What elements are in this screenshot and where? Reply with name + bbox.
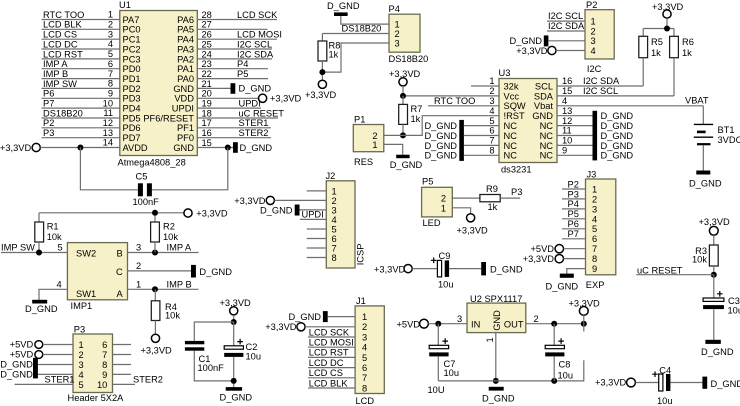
wire +3,3VD down [233, 315, 235, 322]
svg-text:UPDI: UPDI [172, 104, 194, 114]
svg-text:UPDI: UPDI [302, 210, 324, 220]
wire U1 pin 26 [197, 38, 277, 40]
svg-text:C4: C4 [659, 365, 671, 375]
svg-text:9: 9 [108, 88, 113, 98]
svg-text:+3,3VD: +3,3VD [516, 46, 548, 56]
capacitor C4 plates [652, 371, 670, 391]
ground D_GND (IMP1 SW1) [32, 300, 47, 304]
junction C8 bottom [551, 378, 557, 384]
svg-text:AVDD: AVDD [123, 143, 148, 153]
resistor R2 [151, 222, 160, 242]
ground bar U3 pins 13-9 [593, 111, 598, 161]
svg-text:3: 3 [489, 96, 494, 106]
connector P5 body [422, 187, 453, 217]
wire U1 pin 21 [197, 87, 230, 89]
svg-text:P5: P5 [237, 69, 248, 79]
svg-text:BT1: BT1 [718, 125, 735, 135]
wire J1 pin2 [305, 326, 355, 328]
svg-text:2: 2 [591, 26, 596, 36]
wire U1 pin 12 net P2 [42, 127, 120, 129]
wire U3 pin 6 to gnd [464, 135, 499, 137]
svg-text:2: 2 [79, 350, 84, 360]
svg-text:2: 2 [332, 196, 337, 206]
wire J1 net LCD DC [308, 367, 355, 369]
svg-text:7: 7 [592, 244, 597, 254]
svg-text:10: 10 [97, 380, 107, 390]
wire P1 pin2 [384, 134, 403, 136]
svg-text:16: 16 [562, 76, 572, 86]
svg-text:R5: R5 [651, 37, 663, 47]
ground D_GND (C1/C2) [226, 387, 242, 391]
svg-text:15: 15 [562, 86, 572, 96]
svg-text:10u: 10u [444, 368, 460, 378]
svg-text:1: 1 [108, 10, 113, 20]
svg-text:DS18B20: DS18B20 [43, 108, 83, 118]
wire +3,3VD to C4 [635, 382, 658, 384]
svg-text:+3,3VD: +3,3VD [0, 143, 31, 153]
svg-text:8: 8 [362, 383, 367, 393]
svg-text:SQW: SQW [504, 101, 526, 111]
svg-text:4: 4 [489, 106, 494, 116]
wire +3,3VD to R5/R6 [643, 18, 674, 36]
svg-text:+3,3VD: +3,3VD [265, 322, 297, 332]
wire I2C SDA (U3.16) [557, 85, 643, 87]
wire R3 top [713, 235, 715, 245]
svg-text:P6: P6 [43, 89, 54, 99]
wire P3 pin2 [43, 354, 73, 356]
wire C5 to U1 pin15 GND [152, 148, 228, 190]
svg-text:D_GND: D_GND [0, 360, 33, 370]
wire to C3 [713, 275, 715, 298]
wire to C1 top [194, 322, 233, 341]
svg-text:9: 9 [592, 264, 597, 274]
svg-text:6: 6 [362, 363, 367, 373]
wire U1 pin 10 net P7 [42, 107, 120, 109]
junction R7/P1/!RST [400, 132, 406, 138]
svg-text:1: 1 [485, 337, 495, 342]
svg-text:Header 5X2A: Header 5X2A [68, 393, 125, 403]
svg-text:IMP A: IMP A [43, 59, 68, 69]
ground D_GND (P2 pin3) [544, 35, 549, 46]
svg-text:PD5: PD5 [123, 113, 141, 123]
svg-text:R2: R2 [163, 222, 175, 232]
wire J2 pin 6 stub [307, 238, 327, 240]
svg-text:LCD MOSI: LCD MOSI [309, 338, 354, 348]
svg-text:IMP SW: IMP SW [1, 243, 35, 253]
svg-text:D_GND: D_GND [220, 393, 253, 403]
wire +3,3VD out stub [583, 315, 585, 331]
svg-text:+5VD: +5VD [397, 319, 421, 329]
svg-text:8: 8 [108, 79, 113, 89]
svg-text:+3,3VD: +3,3VD [196, 209, 228, 219]
wire J3 pin9 gnd [567, 269, 586, 274]
terminal +3,3VD (J3 pin8) [555, 254, 563, 262]
wire P3 pin1 [43, 344, 73, 346]
svg-text:D_GND: D_GND [424, 131, 457, 141]
svg-text:I2C SDA: I2C SDA [548, 21, 585, 31]
connector P4 body [389, 14, 420, 52]
terminal +3,3VD (R7 top) [399, 78, 407, 86]
resistor R1 [35, 222, 44, 242]
svg-text:PC3: PC3 [123, 54, 141, 64]
svg-text:LCD MOSI: LCD MOSI [237, 30, 282, 40]
wire J1 net LCD BLK [308, 387, 355, 389]
svg-text:R6: R6 [682, 37, 694, 47]
wire J3 pin7 [564, 248, 586, 250]
junction uC RESET/R3/C3 [711, 272, 717, 278]
capacitor C7 plates [429, 338, 448, 356]
capacitor C5 plates [138, 183, 143, 196]
capacitor C8 plates [545, 338, 564, 356]
resistor R8 [318, 41, 327, 61]
ground D_GND (IMP1 C) [191, 265, 196, 278]
svg-text:IMP B: IMP B [43, 69, 68, 79]
svg-text:NC: NC [504, 141, 518, 151]
wire U1 pin 9 net P6 [42, 97, 120, 99]
svg-text:23: 23 [202, 59, 212, 69]
svg-text:D_GND: D_GND [711, 379, 740, 389]
wire P5 pin1 [452, 208, 470, 214]
wire U2 OUT [526, 323, 584, 325]
wire C3 bottom [713, 309, 715, 340]
svg-text:C9: C9 [439, 251, 451, 261]
svg-text:VDD: VDD [174, 94, 194, 104]
wire U3 pin 7 to gnd [464, 144, 499, 146]
svg-text:NC: NC [540, 151, 554, 161]
svg-text:PC1: PC1 [123, 35, 141, 45]
svg-text:PA6: PA6 [177, 15, 194, 25]
svg-text:3: 3 [395, 38, 400, 48]
svg-text:J3: J3 [587, 169, 597, 179]
terminal +3,3VD (R4) [151, 334, 159, 342]
svg-text:LCD DC: LCD DC [43, 39, 78, 49]
wire U1 pin 16 [197, 137, 271, 139]
svg-text:1k: 1k [651, 48, 661, 58]
svg-text:+3,3VD: +3,3VD [523, 254, 555, 264]
wire P3 pin 9 stub [113, 373, 132, 375]
svg-text:D_GND: D_GND [490, 264, 523, 274]
svg-text:U2 SPX1117: U2 SPX1117 [470, 294, 522, 304]
svg-text:+5VD: +5VD [530, 244, 554, 254]
wire U1 pin 8 net IMP SW [42, 87, 120, 89]
svg-text:1k: 1k [411, 114, 421, 124]
svg-text:PD2: PD2 [123, 84, 141, 94]
svg-text:PA5: PA5 [177, 25, 194, 35]
svg-text:3: 3 [332, 205, 337, 215]
svg-text:5: 5 [108, 49, 113, 59]
wire U1 pin 22 [197, 78, 268, 80]
resistor R4 [151, 301, 160, 321]
svg-text:D_GND: D_GND [482, 393, 515, 403]
wire J2 pin 5 stub [307, 228, 327, 230]
svg-text:+3,3VD: +3,3VD [305, 90, 337, 100]
svg-text:1: 1 [591, 17, 596, 27]
ground D_GND (U1 pin 15) [233, 142, 238, 153]
svg-text:100nF: 100nF [133, 197, 160, 207]
wire D_GND to P4 pin1 [341, 16, 389, 24]
wire C7 bottom [437, 356, 439, 381]
connector J1 body [355, 306, 384, 394]
wire U1 pin 2 net LCD BLK [42, 28, 120, 30]
wire R4 bottom [154, 321, 156, 335]
junction C8 top [551, 321, 557, 327]
svg-text:17: 17 [202, 118, 212, 128]
svg-text:R7: R7 [411, 104, 423, 114]
wire P2 pin2 I2C SDA [547, 30, 585, 32]
wire P3 pin 7 stub [113, 354, 132, 356]
svg-text:10k: 10k [692, 254, 707, 264]
ground D_GND (BT1) [696, 171, 710, 175]
wire R8 top [321, 34, 323, 42]
connector J2 body [326, 181, 355, 268]
svg-text:P4: P4 [568, 199, 579, 209]
svg-text:D_GND: D_GND [546, 281, 579, 291]
svg-text:+3,3VD: +3,3VD [699, 217, 731, 227]
ground D_GND (C3) [705, 340, 720, 344]
wire J2 pin3 gnd [300, 209, 327, 211]
svg-text:P1: P1 [354, 114, 365, 124]
svg-text:P2: P2 [568, 179, 579, 189]
resistor R6 [670, 36, 679, 57]
svg-text:+3,3VD: +3,3VD [389, 69, 421, 79]
svg-text:STER2: STER2 [133, 375, 163, 385]
svg-text:R1: R1 [47, 222, 59, 232]
junction R8/P4.3 [319, 69, 325, 75]
svg-text:SCL: SCL [535, 81, 553, 91]
svg-text:D_GND: D_GND [288, 312, 321, 322]
svg-text:+5VD: +5VD [10, 340, 34, 350]
terminal +3,3VD (rail) [184, 209, 192, 217]
svg-text:!RST: !RST [504, 111, 525, 121]
wire bottom rail [438, 360, 584, 381]
svg-text:7: 7 [362, 373, 367, 383]
terminal +3,3VD (C9) [404, 265, 412, 273]
wire C1 bottom [194, 351, 233, 381]
terminal +3,3VD (C1/C2) [230, 307, 238, 315]
svg-text:+3,3VD: +3,3VD [141, 345, 173, 355]
wire J1 pin1 gnd [328, 316, 355, 318]
svg-text:10: 10 [103, 98, 113, 108]
wire C8 bottom [553, 356, 555, 381]
svg-text:1: 1 [489, 76, 494, 86]
svg-text:P6: P6 [568, 219, 579, 229]
svg-text:9: 9 [562, 146, 567, 156]
svg-text:STER1: STER1 [45, 375, 75, 385]
terminal +3,3VD (P2 pin4) [548, 46, 556, 54]
wire C2 bottom [233, 357, 235, 387]
terminal +5VD (J3 pin7) [555, 245, 563, 253]
wire P3 pin 8 stub [113, 364, 132, 366]
svg-text:SDA: SDA [534, 91, 554, 101]
wire C9 to gnd [449, 268, 481, 270]
ground D_GND (J3 pin9) [560, 274, 574, 278]
svg-text:P7: P7 [568, 229, 579, 239]
svg-text:5: 5 [362, 353, 367, 363]
wire R4 top [154, 289, 156, 301]
wire U3 right row 4 to gnd [557, 115, 593, 117]
wire U1 pin 20 [197, 97, 258, 99]
capacitor C3 plates [703, 291, 724, 309]
wire J3 net P3 [562, 198, 586, 200]
svg-text:1k: 1k [682, 48, 692, 58]
switch IMP1 body [67, 243, 127, 300]
wire J3 net P7 [562, 238, 586, 240]
wire P2 pin3 gnd [548, 40, 585, 42]
wire U1 pin 24 [197, 58, 272, 60]
svg-text:6: 6 [108, 59, 113, 69]
svg-text:7: 7 [489, 136, 494, 146]
svg-text:2: 2 [362, 322, 367, 332]
svg-text:10u: 10u [728, 306, 740, 316]
svg-text:5: 5 [79, 380, 84, 390]
wire J3 net P2 [562, 188, 586, 190]
svg-text:+3,3VD: +3,3VD [374, 264, 406, 274]
wire C8 top [553, 324, 555, 346]
wire U1 pin 23 [197, 68, 268, 70]
junction GND rail [493, 378, 499, 384]
capacitor C2 plates [224, 339, 243, 357]
svg-text:2: 2 [592, 194, 597, 204]
svg-text:D_GND: D_GND [601, 111, 634, 121]
svg-text:UPDI: UPDI [239, 99, 261, 109]
IC U3 ds3231 body [499, 79, 557, 163]
wire R7 top [402, 96, 404, 105]
svg-text:I2C SDA: I2C SDA [583, 76, 620, 86]
wire U3 right row 8 to gnd [557, 154, 593, 156]
svg-text:A: A [116, 289, 123, 299]
svg-text:5: 5 [58, 243, 63, 253]
svg-text:U1: U1 [119, 0, 131, 10]
terminal +5VD (U2 in) [420, 319, 429, 328]
svg-text:11: 11 [103, 108, 113, 118]
svg-text:D_GND: D_GND [601, 131, 634, 141]
terminal +3,3VD (U1 AVDD) [32, 143, 40, 151]
svg-text:ds3231: ds3231 [501, 165, 532, 175]
svg-text:PA0: PA0 [177, 74, 194, 84]
svg-text:2: 2 [489, 86, 494, 96]
wire U3 right row 5 to gnd [557, 125, 593, 127]
wire U1 pin 15 [197, 147, 233, 149]
svg-text:NC: NC [504, 151, 518, 161]
wire IMP1 pin4 to gnd [39, 289, 67, 300]
wire U1 pin 17 [197, 127, 271, 129]
connector J3 body [586, 179, 616, 275]
terminal +3,3VD (U2 out) [579, 307, 588, 316]
svg-text:LCD RST: LCD RST [43, 49, 83, 59]
svg-text:7: 7 [102, 350, 107, 360]
svg-text:I2C SCL: I2C SCL [237, 39, 272, 49]
svg-text:SW1: SW1 [76, 289, 96, 299]
svg-text:IN: IN [471, 319, 480, 329]
svg-text:10u: 10u [558, 370, 574, 380]
svg-text:27: 27 [202, 20, 212, 30]
svg-text:RTC TOO: RTC TOO [43, 10, 84, 20]
svg-text:6: 6 [332, 234, 337, 244]
svg-text:D_GND: D_GND [239, 84, 272, 94]
wire U1 pin 3 net LCD CS [42, 38, 120, 40]
svg-text:D_GND: D_GND [240, 143, 273, 153]
svg-text:32k: 32k [504, 81, 519, 91]
svg-text:D_GND: D_GND [424, 151, 457, 161]
svg-text:IMP B: IMP B [167, 280, 192, 290]
svg-text:1: 1 [592, 184, 597, 194]
wire P3 pin3 gnd [38, 364, 73, 366]
ground D_GND (J2 pin3) [295, 205, 300, 216]
svg-text:28: 28 [202, 10, 212, 20]
svg-text:6: 6 [592, 234, 597, 244]
svg-text:PD0: PD0 [123, 64, 141, 74]
svg-text:C8: C8 [559, 360, 571, 370]
junction IMP B/R4 [152, 286, 158, 292]
svg-text:P3: P3 [43, 128, 54, 138]
wire +3,3VD to C9 [412, 268, 437, 270]
svg-text:21: 21 [202, 79, 212, 89]
svg-text:10k: 10k [47, 232, 62, 242]
svg-text:LCD: LCD [356, 396, 375, 406]
terminal +3,3VD (C4) [627, 378, 636, 387]
wire P5 pin2 to R9 [452, 197, 480, 199]
svg-text:2: 2 [136, 261, 141, 271]
ground D_GND (J1 pin1) [323, 311, 328, 322]
junction C7 top [435, 321, 441, 327]
svg-text:Vbat: Vbat [534, 101, 554, 111]
wire IMP A (pin3) [128, 252, 199, 254]
wire J1 net LCD RST [308, 356, 355, 358]
svg-text:D_GND: D_GND [199, 267, 232, 277]
svg-text:D_GND: D_GND [424, 141, 457, 151]
ground D_GND (P1) [396, 155, 409, 159]
svg-text:5: 5 [332, 224, 337, 234]
terminal +3,3VD (J2 pin2) [266, 196, 274, 204]
svg-text:P3: P3 [568, 189, 579, 199]
wire net STER1 (P3 pin5) [15, 383, 74, 385]
svg-text:IMP A: IMP A [167, 243, 192, 253]
svg-text:3VDC: 3VDC [718, 135, 740, 145]
svg-text:RES: RES [354, 157, 373, 167]
wire +3,3VD rail (R1/R2) [39, 213, 184, 222]
svg-text:8: 8 [332, 253, 337, 263]
capacitor C9 plates [431, 258, 449, 277]
wire R3 bottom [713, 266, 715, 275]
svg-text:1: 1 [136, 280, 141, 290]
svg-text:D_GND: D_GND [601, 151, 634, 161]
wire R7 bottom [402, 124, 404, 135]
wire R8 bottom [321, 61, 323, 80]
svg-text:LCD CS: LCD CS [309, 368, 343, 378]
wire J2 pin2 [274, 199, 326, 201]
svg-text:26: 26 [202, 30, 212, 40]
svg-text:3: 3 [591, 36, 596, 46]
connector P3 body [73, 334, 113, 393]
svg-text:IMP SW: IMP SW [43, 79, 77, 89]
wire VBAT (U3 Vbat) [557, 105, 703, 107]
svg-text:25: 25 [202, 39, 212, 49]
svg-text:NC: NC [540, 141, 554, 151]
wire R6 to I2C SCL [673, 58, 675, 96]
svg-text:12: 12 [103, 118, 113, 128]
junction U1 pin15/C5 [225, 144, 231, 150]
wire U1 pin 4 net LCD DC [42, 48, 120, 50]
svg-text:VBAT: VBAT [685, 96, 709, 106]
svg-text:2: 2 [108, 20, 113, 30]
svg-text:D_GND: D_GND [509, 36, 542, 46]
resistor R9 [480, 195, 500, 202]
svg-text:NC: NC [540, 131, 554, 141]
svg-text:STER1: STER1 [239, 118, 269, 128]
svg-text:P4: P4 [389, 4, 400, 14]
svg-text:14: 14 [103, 138, 113, 148]
junction C1/C2 bottom [231, 378, 237, 384]
